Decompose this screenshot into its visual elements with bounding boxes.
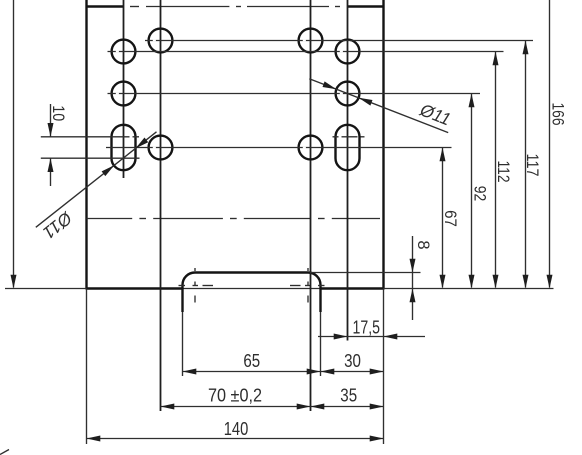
hole top inner-right xyxy=(299,29,323,53)
dimension line 166 xyxy=(549,0,551,288)
right slot center mark dashes xyxy=(333,136,339,138)
svg-text:17,5: 17,5 xyxy=(353,317,381,338)
hole lower inner-right xyxy=(299,136,323,160)
dimension line 92 xyxy=(471,94,473,288)
tab outline (rounded lug) xyxy=(183,273,321,313)
plate bottom edge behind tab (thin) xyxy=(183,288,321,290)
slot left (obround) xyxy=(112,125,136,170)
dimension line 35 xyxy=(311,406,384,408)
dimension 8 upper part xyxy=(412,236,414,320)
ext line slot upper arc center xyxy=(41,136,130,138)
plate bottom edge left of tab xyxy=(86,287,183,289)
left cropped dimension line xyxy=(13,0,15,288)
ext line slot lower arc center xyxy=(41,157,140,159)
svg-text:112: 112 xyxy=(494,161,512,183)
tab right extension line xyxy=(320,312,322,376)
dimension line 17,5 xyxy=(318,336,425,338)
svg-text:65: 65 xyxy=(243,350,260,371)
leader line diameter top-right xyxy=(309,79,448,133)
plate right edge xyxy=(382,0,384,289)
ext line for dim 8 xyxy=(310,272,421,274)
ext line slot upper arc dash xyxy=(133,136,140,138)
svg-text:92: 92 xyxy=(470,186,488,202)
top step edge right xyxy=(348,5,384,7)
row line top holes (ext for 117) xyxy=(145,40,533,42)
svg-text:140: 140 xyxy=(224,418,249,439)
tab left extension line xyxy=(182,312,184,376)
dimension line 140 xyxy=(87,438,384,440)
column line left inner holes xyxy=(160,0,162,411)
hole upper outer-left xyxy=(112,40,136,64)
svg-text:8: 8 xyxy=(414,240,432,249)
column line through right slot xyxy=(347,0,349,341)
hole upper outer-right xyxy=(336,40,360,64)
baseline extension left xyxy=(5,288,87,290)
dimension 10 lower part xyxy=(50,158,52,186)
cropped corner mark bottom-left xyxy=(0,450,9,455)
tab left corner center mark horizontal xyxy=(179,285,186,287)
leader line diameter bottom-left xyxy=(36,132,157,228)
left edge extension down xyxy=(86,289,88,445)
row line upper outer holes (ext for 112) xyxy=(108,51,504,53)
plate bottom edge right of tab xyxy=(321,287,385,289)
dimension 8 lower part xyxy=(410,289,416,303)
dimension line 117 xyxy=(525,41,527,288)
tab right corner center mark vertical xyxy=(307,268,309,271)
baseline extension right xyxy=(384,288,554,290)
hole top inner-left xyxy=(149,29,173,53)
right edge extension down xyxy=(383,289,385,445)
dimension line 112 xyxy=(495,52,497,288)
column line right inner holes xyxy=(310,0,312,411)
dimension 10 upper part xyxy=(50,104,52,137)
dimension line 67 xyxy=(442,148,444,288)
leader arrows at slot edges xyxy=(102,165,115,176)
row line lower holes (ext for 67) xyxy=(106,147,452,149)
svg-text:10: 10 xyxy=(49,105,67,121)
svg-text:67: 67 xyxy=(441,210,459,227)
tab left corner center mark vertical xyxy=(194,268,196,271)
dimension line 65 xyxy=(183,371,321,373)
row line middle holes (ext for 92) xyxy=(108,93,481,95)
tab right corner center mark horizontal xyxy=(290,285,301,287)
svg-text:30: 30 xyxy=(344,350,361,371)
svg-text:166: 166 xyxy=(548,103,566,126)
slot right (obround) xyxy=(336,125,360,170)
dimension line 30 xyxy=(321,371,384,373)
horizontal center line of plate (dash-dot) xyxy=(87,218,133,220)
top center line (dash-dot) xyxy=(130,6,139,8)
svg-text:35: 35 xyxy=(340,384,357,405)
hole middle outer-left xyxy=(112,82,136,106)
dimension line 70 xyxy=(161,406,311,408)
hole middle outer-right xyxy=(336,82,360,106)
column line through left slot xyxy=(123,0,125,178)
top step edge left xyxy=(87,5,124,7)
svg-text:117: 117 xyxy=(523,154,541,177)
hole lower inner-left xyxy=(149,136,173,160)
plate left edge xyxy=(85,0,87,289)
svg-text:70 ±0,2: 70 ±0,2 xyxy=(208,384,262,405)
leader arrows at hole edges xyxy=(323,81,337,89)
